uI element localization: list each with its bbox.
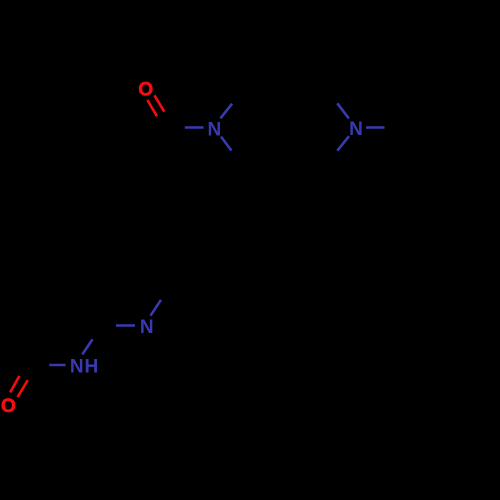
bond N4 to formyl C (left horizontal half-bond) bbox=[49, 364, 65, 367]
bond N3 to ring C2 (left horizontal half-bond) bbox=[116, 324, 135, 327]
bond N4 to ring C2 (up-right half-bond) bbox=[82, 339, 92, 354]
bond N1 to ring CH2 (down-right half-bond) bbox=[221, 137, 231, 151]
svg-text:N: N bbox=[208, 119, 222, 140]
svg-text:N: N bbox=[140, 317, 154, 338]
bond N1 to carbonyl C (left horizontal half-bond) bbox=[185, 126, 204, 129]
bond C=O1 double bond line b (upper-right stroke) bbox=[154, 95, 164, 111]
bond C=O1 double bond line a (lower-left stroke) bbox=[147, 100, 157, 116]
bond N3 to ring C (up-right half-bond) bbox=[151, 300, 162, 316]
bond N2 to phenyl C (right horizontal half-bond) bbox=[366, 126, 385, 129]
bond N2 to ring CH2 (up-left half-bond) bbox=[337, 103, 349, 118]
svg-text:O: O bbox=[1, 396, 16, 417]
svg-text:O: O bbox=[138, 79, 153, 100]
bond N1 to ring CH2 (up-right half-bond) bbox=[220, 104, 232, 119]
bond C=O2 double bond line a (upper-left stroke) bbox=[10, 376, 19, 393]
svg-text:N: N bbox=[70, 356, 84, 377]
bond N2 to ring CH2 (down-left half-bond) bbox=[337, 136, 349, 151]
svg-text:N: N bbox=[349, 119, 363, 140]
bond C=O2 double bond line b (lower-right stroke) bbox=[18, 380, 28, 397]
svg-text:H: H bbox=[85, 356, 99, 377]
